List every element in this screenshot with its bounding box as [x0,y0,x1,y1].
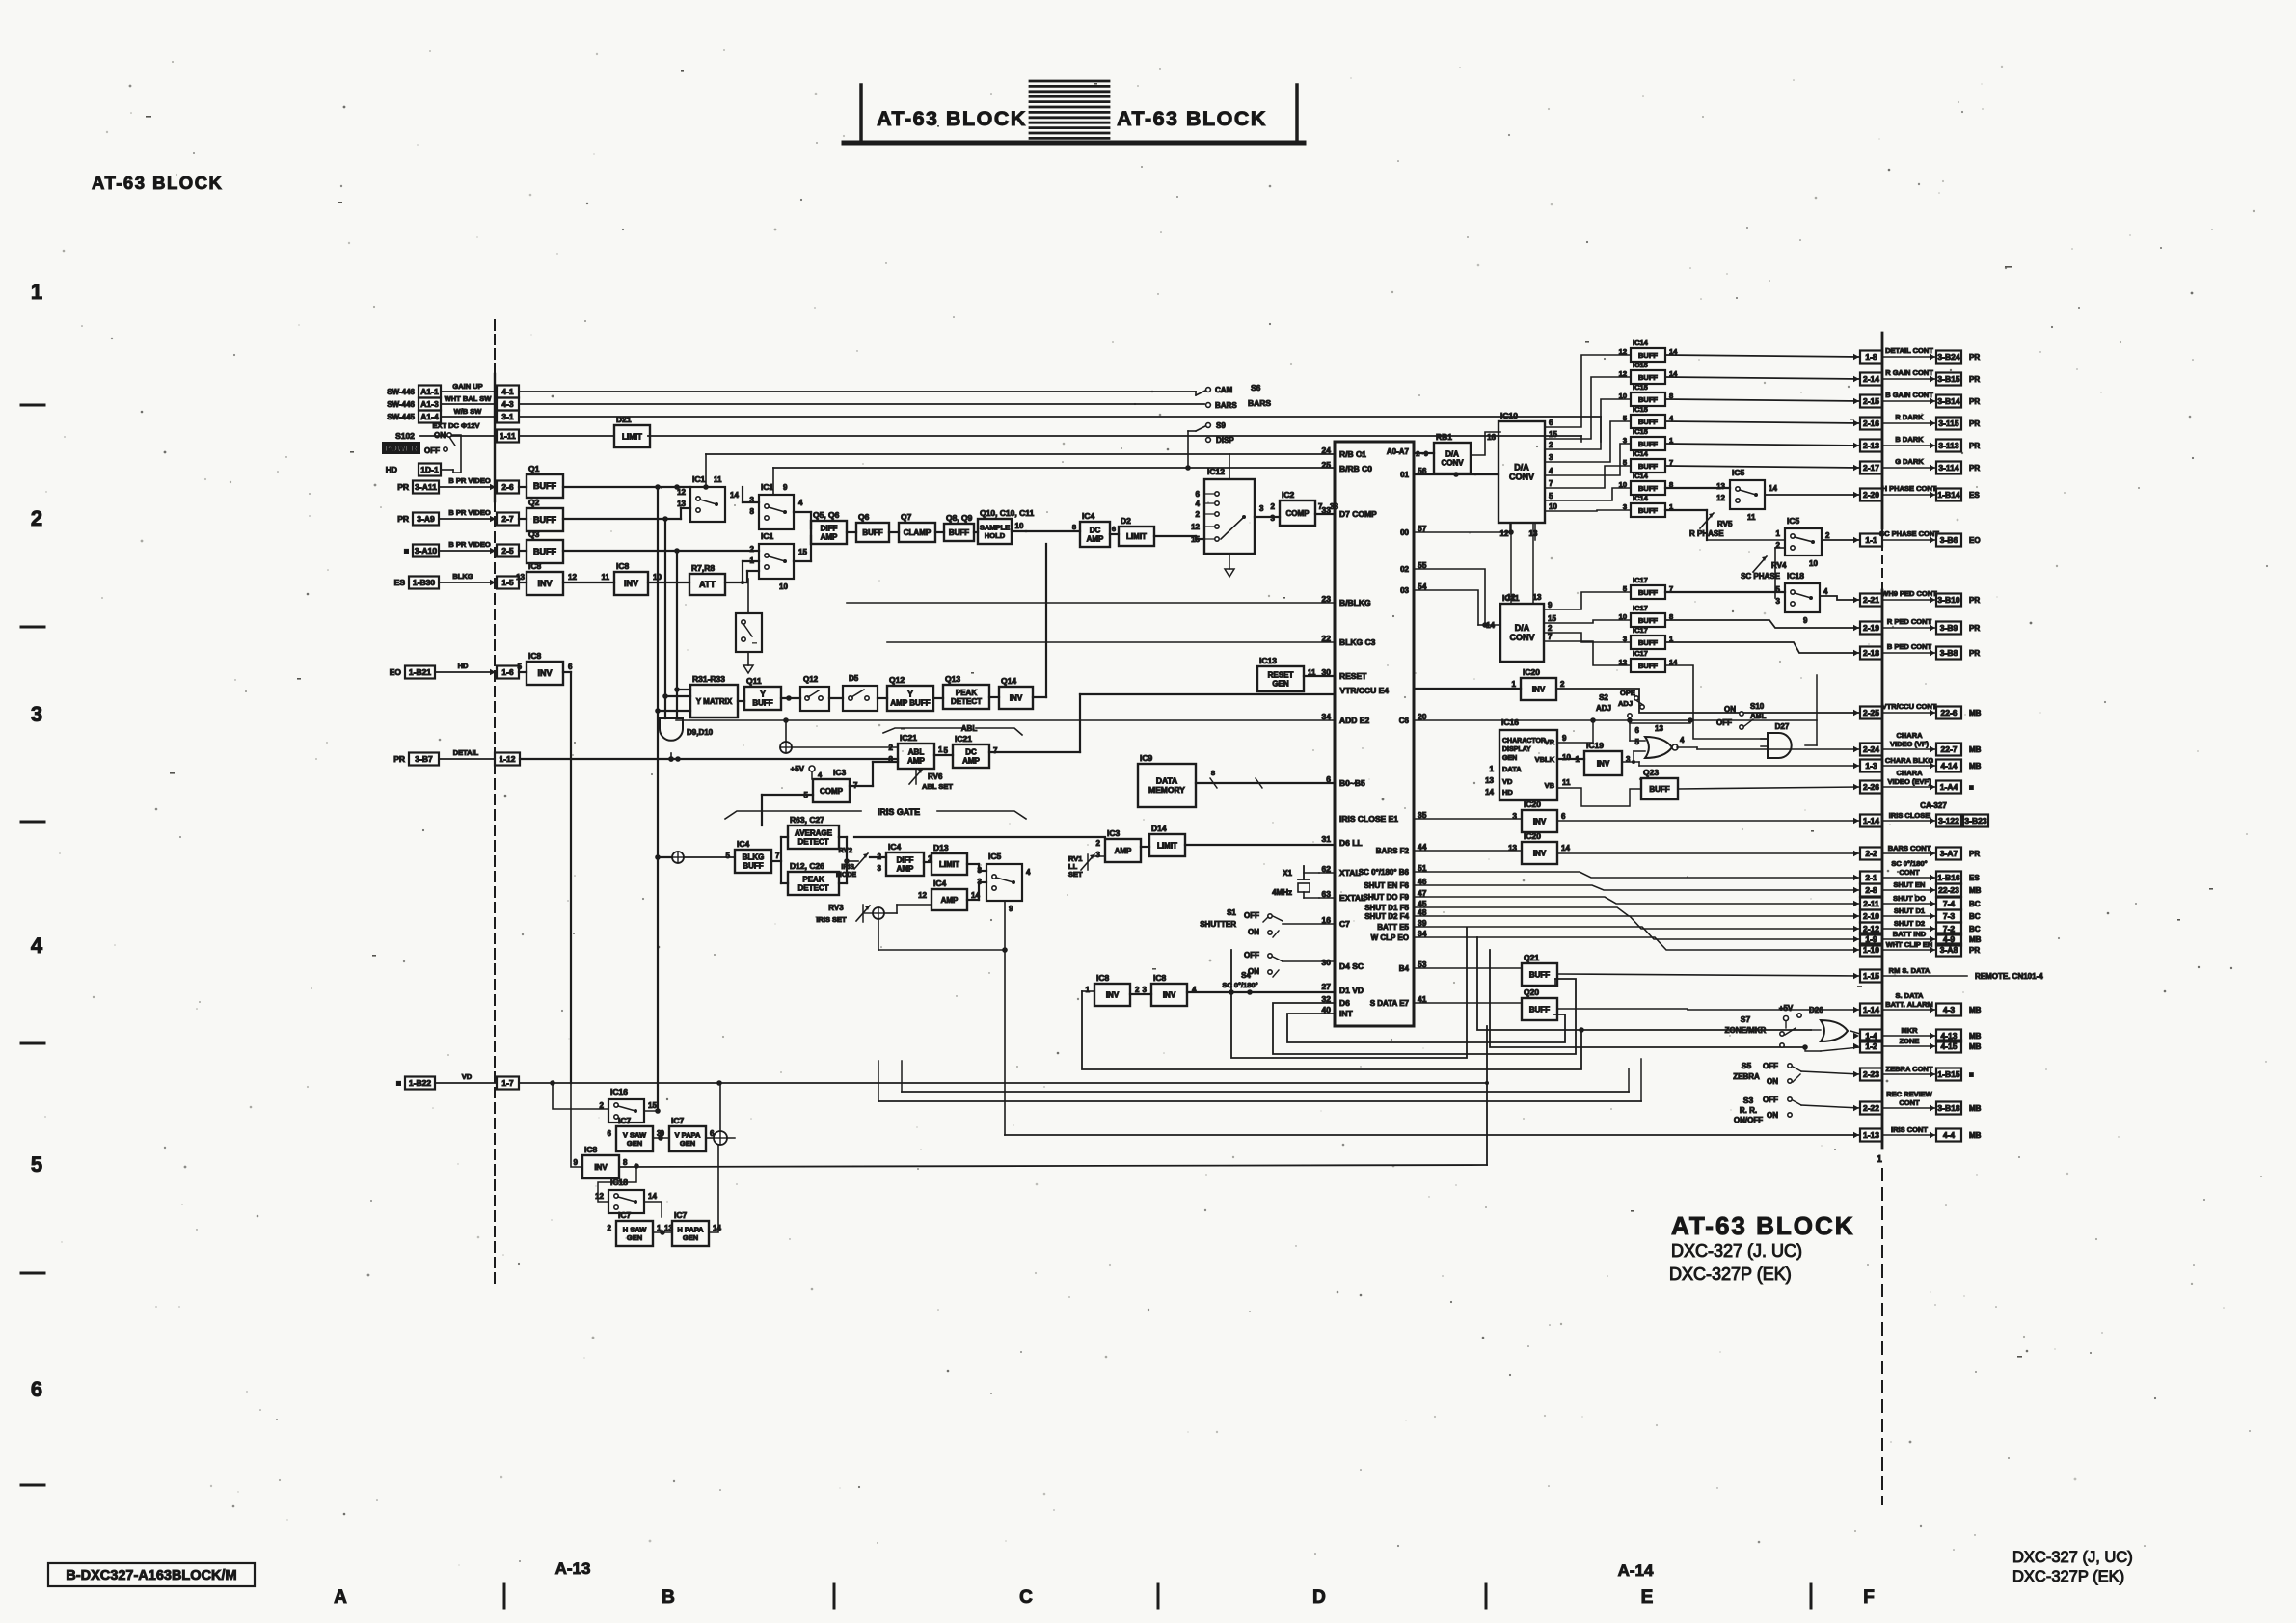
svg-text:AMP: AMP [897,864,914,873]
wire cpu o0 [1414,529,1514,535]
svg-text:33: 33 [1330,502,1338,511]
svg-text:ZONE: ZONE [1900,1037,1920,1045]
svg-text:CHARA: CHARA [1896,731,1923,740]
wire iris close loop [1005,1134,1860,1136]
svg-text:HD: HD [1502,788,1513,797]
svg-text:IC1: IC1 [761,531,774,541]
svg-text:2-22: 2-22 [1863,1103,1879,1113]
svg-text:DETAIL CONT: DETAIL CONT [1885,346,1933,355]
svg-text:VR: VR [1545,738,1555,746]
svg-text:SHUT D2: SHUT D2 [1894,919,1925,928]
svg-text:4: 4 [1680,736,1685,744]
svg-text:2-18: 2-18 [1863,648,1879,658]
wire vertical HD feeder [563,672,571,1083]
svg-text:B: B [662,1587,675,1608]
svg-text:BLKG: BLKG [743,852,765,861]
svg-text:+5V: +5V [791,765,805,773]
switch box diagonal [736,579,762,673]
svg-text:MB: MB [1969,935,1982,944]
svg-text:■: ■ [404,546,409,555]
wire ic5s in [1707,540,1785,598]
svg-text:MKR: MKR [1901,1026,1918,1035]
output 1-10 WHT CLIP EN [1853,940,1980,957]
svg-text:GEN: GEN [1502,755,1517,762]
svg-text:2: 2 [1548,624,1553,633]
svg-text:1-8: 1-8 [1865,352,1877,362]
svg-text:MODE: MODE [836,872,856,879]
input EO 1-B21 [390,662,519,679]
output 1-2 ZONE [1853,1037,1982,1053]
title header bracket [844,85,1304,143]
svg-text:SW-445: SW-445 [387,413,415,421]
svg-text:BUFF: BUFF [1638,351,1658,360]
svg-text:4: 4 [1549,467,1553,475]
svg-text:12: 12 [918,891,927,900]
sum junction blkg [655,852,735,863]
svg-text:S1: S1 [1227,908,1236,917]
svg-text:10: 10 [1562,753,1571,762]
svg-text:BUFF: BUFF [1638,373,1658,382]
svg-text:DATA: DATA [1156,776,1177,786]
svg-text:R/B C1: R/B C1 [1339,449,1366,459]
svg-text:LIMIT: LIMIT [939,860,959,869]
svg-text:7: 7 [1548,633,1553,641]
svg-text:ZONE/MKR: ZONE/MKR [1725,1026,1767,1035]
inverter IC8 a [516,561,577,595]
svg-text:2: 2 [1135,986,1140,994]
wire 2-5 to Q3 [519,550,527,552]
svg-text:IC8: IC8 [1096,973,1110,983]
svg-text:CONT: CONT [1899,868,1920,877]
svg-text:2: 2 [31,506,42,530]
svg-text:D14: D14 [1151,824,1167,833]
svg-text:BUFF: BUFF [1638,588,1658,597]
buffer Q3 [527,529,563,563]
svg-text:16: 16 [1487,433,1496,442]
svg-text:IC8: IC8 [528,561,542,571]
svg-text:OFF: OFF [424,446,440,455]
wire v chain [653,1135,714,1141]
svg-text:3-1: 3-1 [501,412,514,421]
svg-text:RM S. DATA: RM S. DATA [1889,966,1931,975]
svg-text:A1-1: A1-1 [420,387,439,396]
svg-text:INV: INV [1106,990,1120,999]
title text left [877,107,1027,130]
svg-text:DETECT: DETECT [951,697,982,706]
bus wb sw [519,417,1601,442]
svg-text:ES: ES [394,578,406,587]
svg-text:ABL SET: ABL SET [922,782,953,791]
sum junction iris [873,905,1005,950]
svg-text:Q6: Q6 [858,512,870,522]
doc code box [48,1563,255,1586]
output 1-14 BATT. ALARM [1853,991,1982,1016]
svg-text:Y MATRIX: Y MATRIX [696,697,733,706]
inverter IC19 [1576,741,1631,775]
d/a IC11 pin numbers [1548,601,1556,641]
svg-text:2-24: 2-24 [1863,744,1879,754]
svg-text:IC14: IC14 [1633,338,1649,347]
output 2-10 SHUT D1 [1853,906,1981,923]
inverter IC8 e [1143,973,1197,1006]
svg-text:IC15: IC15 [1633,427,1648,436]
switch S1 SHUTTER [1200,908,1335,937]
svg-text:CONV: CONV [1441,458,1464,467]
comparator IC3 [804,768,858,802]
svg-text:3: 3 [1143,986,1148,994]
svg-text:5: 5 [944,746,949,755]
svg-text:6: 6 [1549,419,1553,427]
svg-text:1-B30: 1-B30 [413,578,435,587]
svg-text:SHUT EN: SHUT EN [1894,880,1926,889]
svg-text:PR: PR [1969,624,1980,633]
wire inv osc out [619,1163,1487,1169]
wire return feed 2 [878,1061,879,1101]
output 1-3 CHARA BLKG [1853,756,1982,772]
output 2-19 R PED CONT [1853,617,1980,635]
svg-text:B PR VIDEO: B PR VIDEO [448,476,491,485]
svg-text:■: ■ [1969,1070,1974,1079]
svg-text:4-3: 4-3 [501,399,514,409]
svg-text:GEN: GEN [627,1139,642,1148]
input 3-A9 [397,508,519,526]
bus ext dc [519,436,1581,442]
wire sw chain [794,512,1119,561]
limiter D2 [1119,516,1154,546]
d/a IC10 pin numbers [1549,419,1557,511]
output 2-24 VIDEO (VF) [1853,731,1982,756]
svg-text:4: 4 [1026,868,1031,877]
svg-text:15: 15 [1549,430,1557,439]
wire memory bus [1196,769,1335,788]
svg-text:SHUT D2 F4: SHUT D2 F4 [1364,912,1409,921]
svg-text:DATA: DATA [1502,765,1522,773]
svg-text:4-14: 4-14 [1940,761,1957,771]
svg-text:Q7: Q7 [901,512,912,522]
pot RV2 [836,846,868,879]
svg-text:D/A: D/A [1515,623,1530,633]
wire loop vertical b [1486,1026,1488,1165]
wire IC8 to IC8 [563,582,614,583]
svg-text:D2: D2 [1121,516,1131,526]
svg-text:BARS: BARS [1215,401,1237,410]
svg-text:LIMIT: LIMIT [1157,841,1177,850]
svg-text:REC REVIEW: REC REVIEW [1886,1090,1932,1098]
svg-text:3-B6: 3-B6 [1940,535,1958,545]
page number A-14 [1618,1561,1654,1580]
wire vd long [520,1080,1489,1086]
svg-text:DC: DC [965,747,977,756]
svg-text:PR: PR [1969,649,1980,658]
svg-text:POWER: POWER [385,444,419,453]
svg-text:B/BLKG: B/BLKG [1339,598,1371,608]
svg-text:1: 1 [1877,1154,1882,1165]
svg-text:MB: MB [1969,1104,1982,1113]
wire IC18 out [1820,596,1860,600]
svg-text:A1-3: A1-3 [420,399,439,409]
svg-text:IC14: IC14 [1633,494,1649,502]
svg-text:1-5: 1-5 [501,578,514,587]
svg-text:B PED CONT: B PED CONT [1887,642,1932,651]
svg-text:BUFF: BUFF [743,861,763,870]
reset gen IC13 [1257,656,1316,691]
buffer IC14 row y506 [1619,472,1674,495]
svg-text:3-B14: 3-B14 [1937,396,1959,406]
svg-text:9: 9 [1562,734,1567,743]
svg-text:9: 9 [783,483,788,492]
wire ic16 loop [600,1111,658,1138]
d/a conv IC11 [1486,593,1544,662]
pot RV3 IRIS SET [816,904,873,924]
svg-text:3-113: 3-113 [1938,441,1959,450]
svg-text:6: 6 [1196,490,1201,499]
svg-text:Q5, Q6: Q5, Q6 [813,510,840,520]
svg-text:BLKG C3: BLKG C3 [1339,637,1376,647]
svg-text:IC4: IC4 [933,879,947,888]
svg-text:AMP: AMP [941,896,959,905]
svg-text:31: 31 [1322,834,1332,844]
svg-text:HD: HD [458,662,469,670]
amp IC4 iris [918,879,980,910]
svg-text:D: D [1312,1587,1326,1608]
model text bottom right [2012,1549,2133,1585]
dc amp IC4 [1080,511,1110,547]
svg-text:6: 6 [1561,812,1566,821]
svg-text:3-B18: 3-B18 [1937,1103,1959,1113]
switch S102 POWER [382,431,461,473]
svg-text:15: 15 [1548,614,1556,623]
svg-text:RV4: RV4 [1771,561,1787,570]
svg-text:AMP BUFF: AMP BUFF [890,698,930,707]
svg-text:2-15: 2-15 [1863,396,1879,406]
svg-text:3: 3 [31,702,42,726]
svg-text:ZEBRA CONT: ZEBRA CONT [1886,1065,1933,1073]
wire cpu o1 to IC10 [1414,472,1499,482]
svg-text:■: ■ [1969,783,1974,792]
svg-text:5: 5 [1635,738,1640,746]
svg-text:7: 7 [1549,479,1553,488]
character display IC16 [1485,717,1571,800]
grid col tick [1157,1584,1160,1609]
svg-text:10: 10 [1015,522,1024,530]
diff amp Q5,Q6 [811,510,847,544]
svg-text:14: 14 [648,1192,657,1201]
svg-text:2-10: 2-10 [1863,911,1879,921]
svg-text:6: 6 [1112,525,1116,533]
svg-text:REMOTE. CN101-4: REMOTE. CN101-4 [1975,972,2043,981]
svg-text:D6: D6 [1339,998,1350,1008]
wire blkg b [563,582,579,603]
dc amp IC21 [944,734,998,768]
svg-text:IC8: IC8 [1153,973,1167,983]
output 2-1 CONT [1853,859,1980,884]
diff amp IC4 iris [878,842,932,876]
svg-text:1D-1: 1D-1 [420,465,439,474]
svg-text:8: 8 [1211,769,1215,777]
wire return feed 1 [901,1061,903,1092]
svg-text:CLAMP: CLAMP [904,528,932,537]
pot RV1 LL SET [1068,854,1094,879]
svg-text:D26: D26 [1809,1006,1823,1014]
svg-text:BUFF: BUFF [1638,418,1658,426]
wire buf 614 [1665,591,1785,593]
svg-text:PR: PR [1969,353,1980,362]
grid tick [21,1272,44,1275]
svg-text:BUFF: BUFF [1638,462,1658,471]
svg-text:SHUT EN F6: SHUT EN F6 [1364,881,1409,890]
svg-text:VIDEO (VF): VIDEO (VF) [1890,740,1930,748]
wire IC2 to CPU [1315,513,1335,515]
svg-text:1: 1 [1086,986,1091,994]
wire IC12 to IC2 [1255,516,1280,518]
wire buf 666 [1665,642,1860,653]
buffer IC15 row y437 [1623,405,1674,428]
switch D5 [843,674,878,711]
svg-text:2-16: 2-16 [1863,419,1879,428]
svg-text:2-26: 2-26 [1863,782,1879,792]
svg-text:SHUT DO F9: SHUT DO F9 [1363,893,1409,902]
svg-text:INV: INV [537,668,552,678]
input HD 1D-1 [386,464,453,476]
svg-text:CAM: CAM [1215,386,1233,394]
grid col label C [1019,1587,1033,1608]
y amp buffer Q12 [887,675,933,711]
svg-text:R. R.: R. R. [1740,1106,1757,1115]
svg-text:3-B23: 3-B23 [1964,816,1986,825]
buffer IC15 row y460 [1623,427,1673,450]
svg-text:BUFF: BUFF [949,528,969,537]
svg-text:RV2: RV2 [839,846,852,854]
buffer Q1 [527,464,563,498]
svg-text:8: 8 [750,507,755,516]
wire vertical feeder C [676,551,678,718]
svg-text:22-6: 22-6 [1940,708,1957,717]
svg-text:S4: S4 [1241,971,1251,980]
output 2-20 H PHASE CONT [1853,484,1980,501]
svg-text:7: 7 [1318,502,1323,511]
svg-text:IC15: IC15 [1633,405,1648,414]
wire ic18 h loop [600,1202,662,1232]
svg-text:4-15: 4-15 [1940,1041,1957,1051]
buffer Q2 [527,498,563,531]
svg-text:4: 4 [31,933,43,958]
svg-text:10: 10 [1809,559,1818,568]
svg-text:S5: S5 [1742,1061,1752,1070]
svg-text:BUFF: BUFF [1529,970,1550,979]
wire h papa out [709,1145,718,1232]
wire h chain [644,1202,672,1235]
wire avg out [839,836,1105,838]
svg-text:1-2: 1-2 [1865,1041,1877,1051]
svg-text:27: 27 [1322,982,1332,991]
svg-text:2-20: 2-20 [1863,490,1879,500]
d/a conv IC10 [1487,411,1545,540]
wire 2-7 to Q2 [519,518,527,520]
svg-text:BUFF: BUFF [533,547,556,556]
svg-text:SHUT DO: SHUT DO [1893,894,1926,903]
svg-text:IC18: IC18 [1787,571,1804,581]
svg-text:IC7: IC7 [618,1116,632,1125]
wire buf7 ic5 [1665,488,1860,495]
bus r/b c1 [703,454,1335,490]
svg-text:14: 14 [730,491,739,500]
inverter IC20 b [1513,799,1566,832]
svg-text:5: 5 [518,663,523,671]
svg-text:1: 1 [938,745,943,754]
svg-text:3-B7: 3-B7 [415,754,433,764]
svg-text:4: 4 [1196,500,1201,508]
svg-text:A: A [334,1587,347,1608]
svg-text:BUFF: BUFF [1638,395,1658,404]
limiter D14 [1149,824,1185,856]
switch S9 DISP [1185,421,1234,471]
svg-text:B0~B5: B0~B5 [1339,778,1365,788]
svg-text:IC4: IC4 [737,839,750,849]
svg-text:3-B15: 3-B15 [1937,374,1959,384]
svg-text:8: 8 [1072,523,1076,531]
wire cpu e4 inv [1414,688,1521,690]
svg-text:INT: INT [1339,1009,1354,1018]
svg-text:2-5: 2-5 [501,546,514,555]
svg-text:Q13: Q13 [945,674,960,684]
svg-text:BLKG: BLKG [452,572,473,581]
svg-text:AMP: AMP [907,756,925,765]
svg-text:B GAIN CONT: B GAIN CONT [1885,391,1933,399]
svg-text:INV: INV [1533,817,1547,825]
svg-text:GEN: GEN [627,1233,642,1242]
switch S10 ABL [1716,702,1767,729]
svg-text:DC: DC [1090,526,1101,534]
svg-text:ZEBRA: ZEBRA [1733,1072,1760,1081]
svg-text:D12, C26: D12, C26 [790,861,824,871]
svg-text:OFF: OFF [1763,1062,1778,1070]
crystal X1 4MHz [1272,866,1335,898]
svg-text:MB: MB [1969,1006,1982,1014]
svg-text:2: 2 [750,545,755,554]
switch S7 ZONE/MKR [1725,1004,1824,1047]
svg-text:9: 9 [1548,601,1553,609]
svg-text:W CLP EO: W CLP EO [1371,933,1409,942]
svg-text:2: 2 [1271,502,1276,511]
svg-text:2-14: 2-14 [1863,374,1879,384]
buffer IC17 y614 [1623,576,1673,599]
svg-text:14: 14 [713,1224,721,1232]
buffer IC17 y643 [1619,604,1674,627]
svg-text:22-7: 22-7 [1940,744,1957,754]
svg-text:3: 3 [1271,514,1276,523]
svg-text:1-14: 1-14 [1863,816,1879,825]
svg-text:7: 7 [775,852,780,860]
svg-text:3-A7: 3-A7 [1940,849,1958,858]
svg-text:B DARK: B DARK [1895,435,1924,444]
wire IC12 top feed [1229,454,1244,479]
svg-text:B4: B4 [1399,964,1410,973]
svg-text:MB: MB [1969,886,1982,895]
wire q20 [1414,1003,1860,1010]
svg-text:WHT CLIP EN: WHT CLIP EN [1886,940,1933,949]
svg-text:INV: INV [1163,990,1176,999]
svg-text:D7 COMP: D7 COMP [1339,509,1377,519]
wire amp limit [1088,845,1335,856]
svg-text:03: 03 [1400,586,1409,595]
svg-text:IC20: IC20 [1524,831,1541,841]
svg-text:INV: INV [1597,759,1610,768]
svg-text:11: 11 [714,475,722,484]
svg-text:SW-446: SW-446 [387,388,415,396]
switch IC5 r [1716,468,1777,522]
wire amp sw [967,882,986,900]
output 1-15 RM S. DATA [1853,966,1931,983]
